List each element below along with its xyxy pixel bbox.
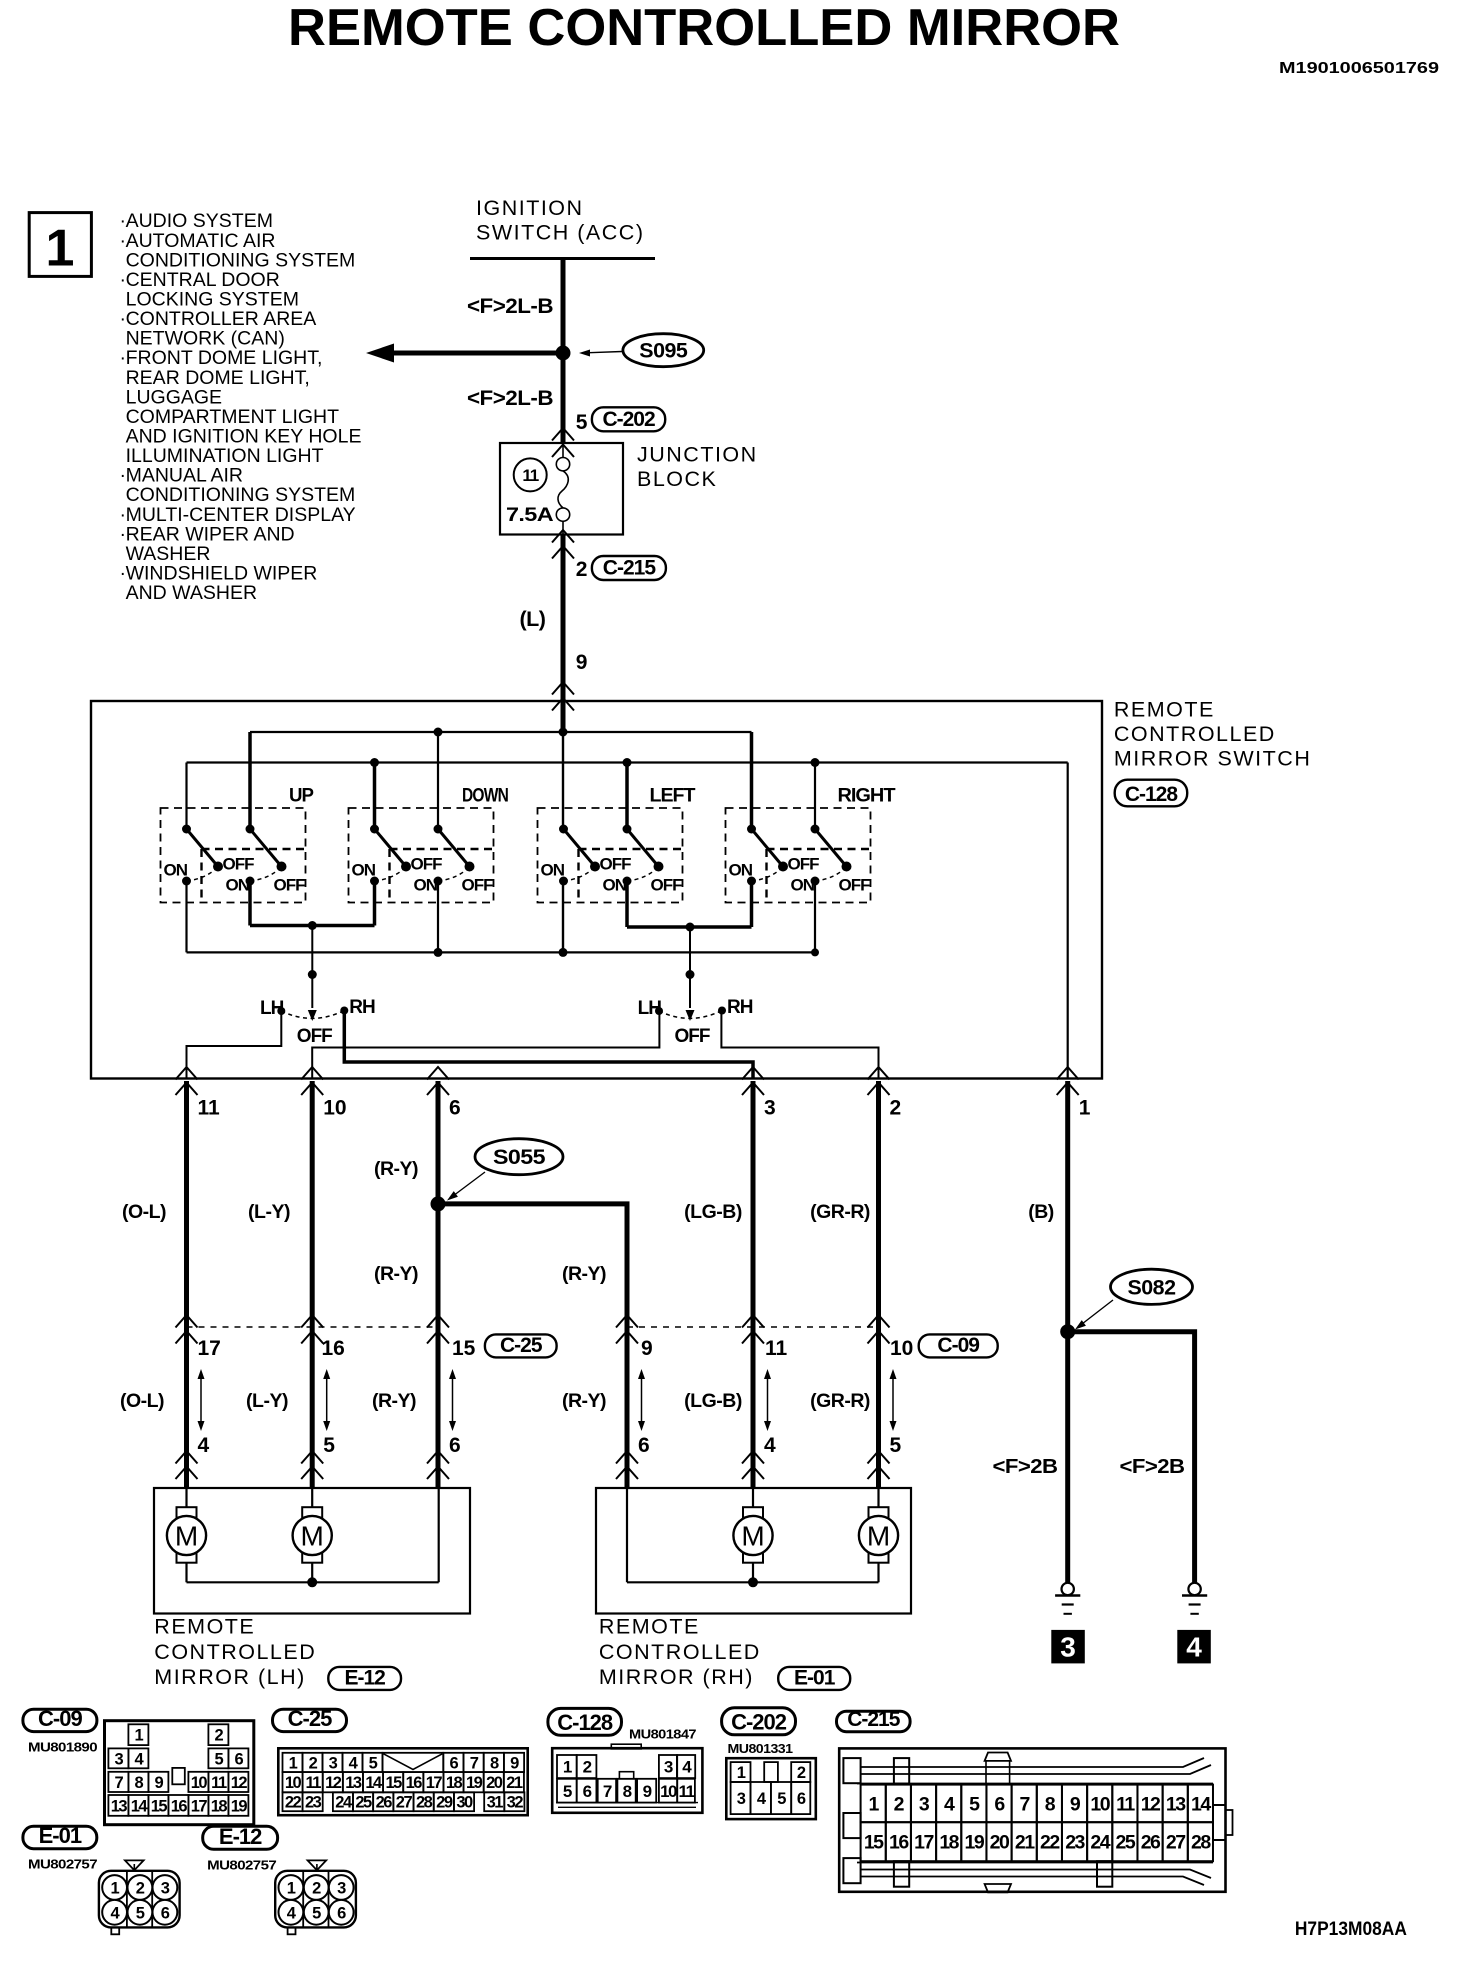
- svg-text:1: 1: [869, 1793, 880, 1815]
- twin arrows between connectors and mirrors: [200, 1372, 202, 1428]
- wire LEFT pole2 to selector: [625, 881, 629, 927]
- svg-text:5: 5: [323, 1434, 335, 1457]
- svg-text:<F>2B: <F>2B: [1120, 1456, 1185, 1478]
- svg-text:C-128: C-128: [557, 1710, 613, 1735]
- svg-text:2: 2: [894, 1793, 905, 1815]
- wire pin3 to RH mirror: [751, 1081, 756, 1488]
- svg-text:MIRROR SWITCH: MIRROR SWITCH: [1114, 747, 1311, 771]
- svg-text:16: 16: [322, 1337, 345, 1360]
- svg-text:11: 11: [211, 1774, 227, 1792]
- selector 2 RH output to pin 2: [721, 1011, 878, 1079]
- wire DOWN pole1 to selector: [373, 881, 377, 926]
- switch unit LEFT: [538, 785, 696, 903]
- ground symbol 4: [1188, 1583, 1200, 1595]
- svg-text:<F>2B: <F>2B: [993, 1456, 1058, 1478]
- svg-text:3: 3: [764, 1097, 776, 1120]
- svg-text:C-25: C-25: [500, 1334, 543, 1357]
- svg-text:21: 21: [1015, 1832, 1035, 1854]
- svg-text:OFF: OFF: [600, 855, 632, 874]
- svg-text:E-12: E-12: [344, 1666, 385, 1689]
- svg-text:19: 19: [965, 1832, 985, 1854]
- mirror switch box C-128: [91, 701, 1102, 1079]
- connector line C-09 dashed: [627, 1326, 879, 1328]
- svg-text:ON: ON: [164, 861, 188, 880]
- svg-text:6: 6: [449, 1434, 460, 1457]
- svg-text:(R-Y): (R-Y): [372, 1390, 416, 1412]
- svg-text:6: 6: [450, 1754, 459, 1772]
- connector pinout C-215: [839, 1748, 1225, 1891]
- svg-text:(R-Y): (R-Y): [374, 1158, 418, 1180]
- svg-text:S095: S095: [639, 340, 688, 363]
- svg-text:10: 10: [191, 1774, 208, 1792]
- svg-text:6: 6: [638, 1434, 649, 1457]
- svg-text:OFF: OFF: [274, 876, 306, 895]
- svg-text:11: 11: [765, 1337, 788, 1360]
- connector line C-25 dashed: [187, 1326, 439, 1328]
- svg-text:(LG-B): (LG-B): [684, 1390, 742, 1412]
- fuse 7.5A symbol: [562, 443, 564, 458]
- svg-text:M1901006501769: M1901006501769: [1279, 60, 1439, 77]
- motor M LH leftright: [302, 1507, 322, 1563]
- node LEFT-RIGHT junction: [686, 923, 695, 932]
- wire branch S055 to RH mirror: [438, 1204, 627, 1488]
- svg-text:15: 15: [151, 1797, 168, 1815]
- svg-text:OFF: OFF: [297, 1026, 332, 1047]
- svg-text:8: 8: [623, 1782, 632, 1801]
- connector chevrons at mirror inputs: [176, 1451, 198, 1464]
- svg-text:23: 23: [1065, 1832, 1085, 1854]
- svg-text:9: 9: [576, 651, 587, 674]
- switch unit UP: [161, 785, 314, 903]
- svg-text:(O-L): (O-L): [120, 1390, 164, 1412]
- wire branch S082 to ground 4: [1068, 1332, 1195, 1583]
- svg-text:4: 4: [944, 1793, 955, 1815]
- svg-text:13: 13: [1166, 1793, 1186, 1815]
- ignition switch label: [476, 196, 644, 245]
- svg-text:6: 6: [583, 1782, 592, 1801]
- svg-text:OFF: OFF: [411, 855, 443, 874]
- remote controlled mirror LH box: [154, 1488, 470, 1614]
- connector pinout C-202: [726, 1758, 816, 1819]
- svg-text:24: 24: [335, 1794, 353, 1812]
- svg-text:3: 3: [1060, 1632, 1076, 1663]
- selector LH-RH mirror select 2: [689, 927, 691, 975]
- svg-text:MU802757: MU802757: [207, 1858, 276, 1873]
- svg-text:10: 10: [660, 1782, 677, 1801]
- connector pinout C-09: [105, 1721, 254, 1825]
- connector label E-12 bottom: [203, 1826, 278, 1849]
- svg-text:C-09: C-09: [38, 1706, 82, 1731]
- svg-text:3: 3: [664, 1758, 673, 1777]
- connector label E-01: [778, 1667, 850, 1690]
- svg-text:2: 2: [583, 1758, 592, 1777]
- splice node S082: [1060, 1324, 1075, 1339]
- svg-text:OFF: OFF: [223, 855, 255, 874]
- selector 1 RH output to pin 3: [344, 1011, 753, 1079]
- svg-text:2: 2: [215, 1727, 224, 1745]
- svg-text:8: 8: [1045, 1793, 1056, 1815]
- svg-text:6: 6: [449, 1097, 461, 1120]
- motor M LH updown: [177, 1507, 197, 1563]
- svg-text:CONTROLLED: CONTROLLED: [599, 1640, 761, 1664]
- ground symbol 3: [1062, 1583, 1074, 1595]
- LH mirror motor wires: [185, 1488, 187, 1508]
- svg-text:15: 15: [452, 1337, 476, 1360]
- remote controlled mirror RH box: [596, 1488, 911, 1614]
- svg-text:5: 5: [136, 1904, 145, 1922]
- svg-text:7.5A: 7.5A: [506, 505, 554, 526]
- connector pinout C-25: [278, 1748, 527, 1815]
- svg-text:7: 7: [603, 1782, 612, 1801]
- label S095: [623, 334, 704, 367]
- svg-text:(R-Y): (R-Y): [374, 1263, 418, 1285]
- svg-text:OFF: OFF: [462, 876, 494, 895]
- switch unit DOWN: [349, 785, 509, 903]
- svg-text:(B): (B): [1028, 1201, 1054, 1223]
- svg-text:MIRROR (RH): MIRROR (RH): [599, 1665, 754, 1689]
- svg-text:26: 26: [1141, 1832, 1161, 1854]
- svg-text:20: 20: [990, 1832, 1010, 1854]
- svg-text:3: 3: [337, 1880, 346, 1898]
- svg-text:9: 9: [1070, 1793, 1081, 1815]
- svg-text:(R-Y): (R-Y): [562, 1390, 606, 1412]
- splice node S095: [556, 346, 571, 361]
- svg-text:MU801890: MU801890: [28, 1740, 97, 1755]
- connector chevrons at junction block output: [552, 530, 574, 543]
- wire pin1 ground wire: [1065, 1081, 1070, 1583]
- connector label C-202: [592, 407, 665, 431]
- wire UP pole2 to selector: [248, 881, 252, 926]
- svg-text:16: 16: [889, 1832, 909, 1854]
- motor M RH leftright: [869, 1507, 889, 1563]
- svg-text:18: 18: [446, 1774, 463, 1792]
- svg-text:30: 30: [456, 1794, 473, 1812]
- svg-text:14: 14: [365, 1774, 383, 1792]
- svg-text:ON: ON: [603, 876, 627, 895]
- svg-text:REMOTE CONTROLLED MIRROR: REMOTE CONTROLLED MIRROR: [288, 0, 1120, 57]
- junction block box: [500, 443, 623, 535]
- svg-text:15: 15: [864, 1832, 884, 1854]
- svg-text:RIGHT: RIGHT: [838, 785, 896, 807]
- svg-text:OFF: OFF: [788, 855, 820, 874]
- wire branch to other systems with arrow: [394, 351, 563, 356]
- svg-text:ON: ON: [541, 861, 565, 880]
- rail return: [187, 761, 1068, 763]
- svg-text:4: 4: [764, 1434, 776, 1457]
- svg-text:8: 8: [490, 1754, 499, 1772]
- wire feed LEFT pole1: [561, 701, 566, 732]
- svg-text:H7P13M08AA: H7P13M08AA: [1295, 1918, 1407, 1940]
- svg-text:(L-Y): (L-Y): [246, 1390, 288, 1412]
- svg-text:24: 24: [1090, 1832, 1110, 1854]
- connector label C-128: [1115, 780, 1188, 807]
- svg-text:27: 27: [1166, 1832, 1185, 1854]
- connector label C-202 bottom: [722, 1708, 796, 1735]
- svg-text:ON: ON: [414, 876, 438, 895]
- svg-text:12: 12: [231, 1774, 248, 1792]
- RH mirror label: [599, 1615, 761, 1690]
- svg-text:20: 20: [486, 1774, 503, 1792]
- svg-text:RH: RH: [727, 997, 753, 1018]
- svg-text:17: 17: [426, 1774, 443, 1792]
- svg-text:C-202: C-202: [731, 1709, 787, 1734]
- wire pin2 to RH mirror: [876, 1081, 881, 1488]
- svg-text:31: 31: [487, 1794, 504, 1812]
- svg-text:1: 1: [135, 1727, 144, 1745]
- svg-text:10: 10: [1090, 1793, 1110, 1815]
- svg-text:32: 32: [507, 1794, 524, 1812]
- ground marker 3: [1052, 1630, 1085, 1663]
- svg-text:21: 21: [506, 1774, 523, 1792]
- svg-text:18: 18: [211, 1797, 228, 1815]
- svg-text:M: M: [301, 1521, 324, 1552]
- svg-text:MIRROR (LH): MIRROR (LH): [154, 1665, 305, 1689]
- svg-text:E-01: E-01: [794, 1666, 836, 1689]
- svg-text:DOWN: DOWN: [462, 785, 508, 807]
- svg-text:ON: ON: [226, 876, 250, 895]
- wire pin10 to LH mirror: [310, 1081, 315, 1488]
- wire feed vertical from ignition switch: [561, 259, 566, 444]
- svg-text:MU801331: MU801331: [728, 1741, 793, 1756]
- svg-text:S055: S055: [493, 1146, 546, 1169]
- svg-text:<F>2L-B: <F>2L-B: [467, 386, 553, 410]
- circuit number 11 circle: [514, 458, 547, 491]
- connector label C-215 top: [592, 556, 666, 580]
- connector pinout E-01: [125, 1860, 144, 1870]
- wire DOWN pole1 feed: [373, 763, 377, 830]
- svg-text:4: 4: [1186, 1632, 1202, 1663]
- svg-text:7: 7: [115, 1774, 124, 1792]
- svg-text:MU801847: MU801847: [629, 1727, 696, 1742]
- svg-text:M: M: [867, 1521, 890, 1552]
- svg-text:12: 12: [1141, 1793, 1161, 1815]
- svg-text:S082: S082: [1128, 1276, 1176, 1299]
- svg-text:5: 5: [777, 1790, 786, 1808]
- svg-text:1: 1: [737, 1764, 746, 1782]
- ground marker 4: [1178, 1630, 1211, 1663]
- svg-text:13: 13: [345, 1774, 362, 1792]
- svg-text:9: 9: [643, 1782, 652, 1801]
- connector label E-12: [328, 1667, 401, 1690]
- svg-text:OFF: OFF: [651, 876, 683, 895]
- svg-text:11: 11: [679, 1782, 695, 1801]
- svg-text:11: 11: [1116, 1793, 1135, 1815]
- connector label C-215 bottom: [837, 1711, 911, 1732]
- connector label C-09 bottom: [23, 1709, 97, 1731]
- svg-text:29: 29: [436, 1794, 453, 1812]
- svg-text:E-12: E-12: [219, 1824, 262, 1849]
- system list: [120, 210, 362, 604]
- svg-text:C-215: C-215: [847, 1708, 901, 1731]
- wire RIGHT pole2: [814, 763, 816, 830]
- wire UP pole1: [185, 763, 187, 830]
- svg-text:25: 25: [355, 1794, 372, 1812]
- svg-text:2: 2: [136, 1880, 145, 1898]
- svg-text:17: 17: [191, 1797, 208, 1815]
- svg-text:6: 6: [235, 1750, 244, 1768]
- svg-text:5: 5: [890, 1434, 902, 1457]
- svg-text:4: 4: [198, 1434, 210, 1457]
- wire junction block to mirror switch: [561, 535, 566, 702]
- svg-text:OFF: OFF: [839, 876, 871, 895]
- svg-text:BLOCK: BLOCK: [637, 467, 717, 491]
- svg-text:28: 28: [1191, 1832, 1211, 1854]
- svg-text:7: 7: [1020, 1793, 1030, 1815]
- svg-text:6: 6: [161, 1904, 170, 1922]
- wire DOWN pole2: [437, 732, 439, 829]
- svg-text:13: 13: [111, 1797, 128, 1815]
- svg-text:7: 7: [470, 1754, 479, 1772]
- wire RIGHT pole1 to selector: [750, 881, 754, 927]
- svg-text:REMOTE: REMOTE: [599, 1615, 700, 1639]
- svg-text:C-09: C-09: [937, 1334, 979, 1357]
- label S082: [1111, 1269, 1193, 1304]
- svg-text:ON: ON: [729, 861, 753, 880]
- svg-text:1: 1: [563, 1758, 572, 1777]
- svg-text:12: 12: [325, 1774, 342, 1792]
- svg-text:2: 2: [890, 1097, 902, 1120]
- svg-text:LH: LH: [638, 998, 662, 1019]
- selector 1 LH output to pin 11: [187, 1011, 282, 1079]
- rail switched lower: [187, 951, 816, 953]
- svg-text:MU802757: MU802757: [28, 1857, 97, 1872]
- svg-text:10: 10: [285, 1774, 302, 1792]
- svg-text:2: 2: [312, 1880, 321, 1898]
- svg-text:6: 6: [994, 1793, 1005, 1815]
- node UP-DOWN junction: [308, 921, 317, 930]
- svg-text:14: 14: [131, 1797, 149, 1815]
- selector LH-RH mirror select 1: [311, 926, 313, 975]
- svg-text:(R-Y): (R-Y): [562, 1263, 606, 1285]
- svg-text:OFF: OFF: [675, 1026, 710, 1047]
- svg-text:9: 9: [510, 1754, 519, 1772]
- svg-text:9: 9: [155, 1774, 164, 1792]
- connector label C-09 mid: [919, 1334, 998, 1357]
- svg-text:M: M: [175, 1521, 198, 1552]
- connector chevrons at junction block input: [552, 428, 574, 441]
- svg-text:UP: UP: [289, 785, 314, 807]
- svg-text:5: 5: [576, 411, 588, 434]
- svg-text:26: 26: [376, 1794, 393, 1812]
- svg-text:1: 1: [289, 1754, 298, 1772]
- connector label C-25 bottom: [273, 1709, 347, 1731]
- motor M RH updown: [743, 1507, 763, 1563]
- LH mirror label: [154, 1615, 316, 1690]
- svg-text:6: 6: [337, 1904, 346, 1922]
- connector pinout E-12: [308, 1860, 327, 1870]
- RH mirror motor wires: [626, 1488, 628, 1582]
- wire RIGHT pole1 feed: [750, 732, 754, 829]
- svg-text:10: 10: [323, 1097, 346, 1120]
- wire pin11 to LH mirror: [184, 1081, 189, 1488]
- mirror switch name label: [1114, 698, 1311, 771]
- connector chevrons at switch box outputs: [176, 1067, 198, 1080]
- connector chevrons at C-25 and C-09: [176, 1315, 198, 1328]
- svg-text:22: 22: [285, 1794, 302, 1812]
- svg-text:6: 6: [797, 1790, 806, 1808]
- svg-text:14: 14: [1191, 1793, 1211, 1815]
- connector label C-25 mid: [485, 1334, 557, 1357]
- connector label E-01 bottom: [23, 1826, 97, 1848]
- svg-text:3: 3: [919, 1793, 930, 1815]
- svg-text:2: 2: [797, 1764, 806, 1782]
- svg-text:C-202: C-202: [602, 408, 655, 431]
- svg-text:19: 19: [231, 1797, 248, 1815]
- connector chevrons at mirror switch input: [552, 682, 574, 695]
- svg-text:15: 15: [385, 1774, 402, 1792]
- svg-text:5: 5: [215, 1750, 224, 1768]
- label S055: [475, 1139, 563, 1175]
- svg-text:CONTROLLED: CONTROLLED: [154, 1640, 316, 1664]
- svg-text:3: 3: [161, 1880, 170, 1898]
- svg-text:3: 3: [737, 1790, 746, 1808]
- svg-text:ON: ON: [352, 861, 376, 880]
- svg-text:11: 11: [198, 1097, 221, 1120]
- svg-text:(O-L): (O-L): [122, 1201, 166, 1223]
- svg-text:C-25: C-25: [288, 1706, 332, 1731]
- ignition switch bus bar: [470, 257, 655, 260]
- wire pin6 to LH mirror: [436, 1081, 441, 1488]
- svg-text:16: 16: [406, 1774, 423, 1792]
- svg-text:M: M: [741, 1521, 764, 1552]
- selector 2 LH output to pin 10: [312, 1011, 659, 1079]
- svg-text:REMOTE: REMOTE: [154, 1615, 255, 1639]
- svg-text:(L-Y): (L-Y): [248, 1201, 290, 1223]
- svg-text:5: 5: [369, 1754, 378, 1772]
- svg-text:18: 18: [939, 1832, 959, 1854]
- svg-text:SWITCH (ACC): SWITCH (ACC): [476, 221, 644, 245]
- svg-text:5: 5: [563, 1782, 572, 1801]
- svg-text:C-215: C-215: [603, 557, 657, 580]
- svg-text:(GR-R): (GR-R): [810, 1390, 870, 1412]
- svg-text:JUNCTION: JUNCTION: [637, 443, 758, 467]
- svg-text:AND WASHER: AND WASHER: [126, 582, 257, 604]
- svg-text:1: 1: [111, 1880, 120, 1898]
- svg-text:10: 10: [890, 1337, 913, 1360]
- svg-text:27: 27: [396, 1794, 413, 1812]
- svg-text:(LG-B): (LG-B): [684, 1201, 742, 1223]
- svg-text:11: 11: [305, 1774, 321, 1792]
- svg-text:REMOTE: REMOTE: [1114, 698, 1215, 722]
- svg-text:1: 1: [287, 1880, 296, 1898]
- svg-text:(L): (L): [519, 607, 545, 631]
- svg-text:9: 9: [641, 1337, 653, 1360]
- switch unit RIGHT: [726, 785, 896, 903]
- connector pinout C-128: [552, 1748, 702, 1813]
- svg-text:8: 8: [135, 1774, 144, 1792]
- svg-text:28: 28: [416, 1794, 433, 1812]
- svg-text:1: 1: [46, 220, 75, 278]
- svg-text:25: 25: [1116, 1832, 1136, 1854]
- svg-text:11: 11: [522, 466, 538, 485]
- rail feed upper: [250, 731, 752, 733]
- svg-text:ON: ON: [791, 876, 815, 895]
- svg-text:(GR-R): (GR-R): [810, 1201, 870, 1223]
- junction block label: [637, 443, 758, 492]
- svg-text:19: 19: [466, 1774, 483, 1792]
- svg-text:2: 2: [576, 558, 587, 581]
- svg-text:LH: LH: [260, 998, 284, 1019]
- svg-text:3: 3: [329, 1754, 338, 1772]
- svg-text:E-01: E-01: [39, 1823, 82, 1848]
- svg-text:C-128: C-128: [1125, 783, 1179, 806]
- svg-text:<F>2L-B: <F>2L-B: [467, 294, 553, 318]
- wire to pin 1: [1067, 763, 1069, 1079]
- svg-text:5: 5: [312, 1904, 321, 1922]
- svg-text:23: 23: [305, 1794, 322, 1812]
- svg-text:RH: RH: [349, 997, 375, 1018]
- svg-text:3: 3: [115, 1750, 124, 1768]
